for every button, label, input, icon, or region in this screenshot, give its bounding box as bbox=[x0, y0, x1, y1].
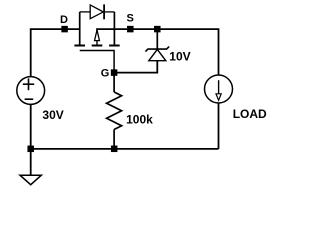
wire source vertical bbox=[113, 12, 115, 45]
ground bbox=[20, 175, 41, 185]
node D junction bbox=[61, 26, 68, 32]
zener cathode bar with tails bbox=[145, 47, 169, 52]
wire bottom rail bbox=[31, 148, 219, 150]
node G junction bbox=[111, 69, 118, 76]
wire main S net: arrow corner to top-right corner down to load bbox=[97, 29, 219, 75]
channel bar body bbox=[92, 45, 103, 47]
diode D2 (top, across D-S) bbox=[80, 4, 115, 19]
wire drain vertical bbox=[79, 12, 81, 45]
node rail-left junction bbox=[27, 146, 34, 153]
wire load bottom to rail bbox=[218, 103, 220, 149]
wire cathode lead bbox=[156, 29, 158, 49]
node rail-mid junction bbox=[111, 146, 118, 153]
svg-text:10V: 10V bbox=[169, 49, 190, 63]
wire source bottom to rail bbox=[30, 104, 32, 148]
wire zener anode to gate node bbox=[114, 61, 157, 73]
wire anode side bbox=[80, 11, 91, 13]
zener diode Z1 10V bbox=[145, 29, 169, 61]
svg-text:LOAD: LOAD bbox=[233, 107, 267, 121]
svg-text:S: S bbox=[127, 13, 134, 25]
transistor Q1 (P-MOSFET with body arrow) bbox=[74, 12, 119, 70]
channel bar source bbox=[109, 45, 120, 47]
channel bar drain bbox=[74, 45, 85, 47]
voltage source V1 30V bbox=[17, 77, 45, 105]
svg-text:G: G bbox=[101, 68, 110, 80]
svg-text:100k: 100k bbox=[126, 113, 153, 127]
node S junction bbox=[127, 26, 134, 32]
zener triangle bbox=[149, 49, 166, 60]
gate line to G node bbox=[80, 51, 114, 71]
svg-text:30V: 30V bbox=[42, 108, 63, 122]
svg-text:D: D bbox=[60, 14, 68, 26]
resistor R1 100k bbox=[107, 76, 122, 149]
wire cathode side bbox=[104, 11, 114, 13]
body arrow bbox=[95, 30, 100, 41]
diode cathode bar bbox=[103, 4, 105, 19]
diode triangle bbox=[90, 5, 103, 19]
wire left branch: source top to drain bbox=[31, 29, 80, 77]
current source LOAD bbox=[205, 75, 233, 103]
node zener junction bbox=[154, 26, 161, 32]
wire ground stub bbox=[30, 149, 32, 175]
